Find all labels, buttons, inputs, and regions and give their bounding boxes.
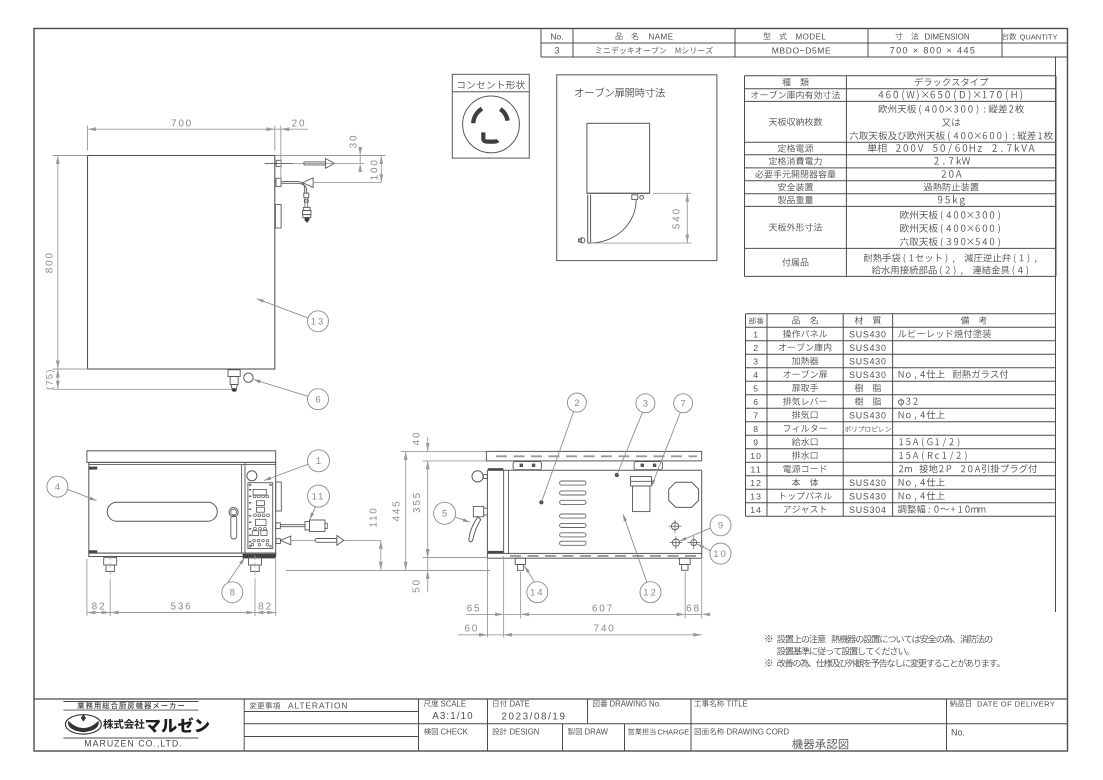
right side divider line: [1055, 57, 1057, 612]
svg-text:SUS304: SUS304: [849, 505, 887, 515]
side view dim 50: [427, 558, 429, 593]
balloon 11 leader: [310, 507, 316, 520]
svg-text:445: 445: [392, 499, 403, 521]
plan view caster foot: [228, 370, 240, 377]
specification table: [745, 75, 1057, 77]
balloon 9: [710, 515, 731, 536]
svg-text:MODEL: MODEL: [796, 32, 827, 41]
floor reference line: [286, 570, 490, 572]
alteration cell rows: [244, 711, 418, 713]
balloon 1: [308, 450, 330, 472]
side view base band: [487, 553, 701, 558]
front view corner clips: [89, 467, 98, 470]
balloon 12: [640, 582, 661, 603]
dim 100: [368, 155, 385, 157]
svg-text:2: 2: [753, 343, 759, 353]
plan view inlet flow arrow left: [303, 178, 314, 188]
svg-text:1: 1: [316, 456, 321, 467]
svg-text:4: 4: [753, 370, 759, 380]
svg-text:8: 8: [230, 588, 235, 599]
side view dim line 65 607 68: [466, 613, 702, 615]
dim 800 extension lines: [53, 155, 88, 157]
title block: [34, 698, 1068, 700]
inset dim 540: [686, 193, 688, 243]
side view exhaust lever knob: [472, 471, 483, 482]
side view louvers upper: [560, 481, 586, 485]
inset floor line and extension: [587, 192, 650, 194]
front view water port: [276, 539, 280, 544]
outlet circle - twist lock receptacle: [463, 96, 520, 153]
svg-text:1: 1: [753, 329, 759, 339]
door-open dimension inset box: [557, 75, 717, 261]
svg-text:30: 30: [348, 134, 359, 149]
plan view exhaust lever circle: [244, 373, 253, 382]
svg-text:82: 82: [258, 601, 273, 612]
svg-text:10: 10: [713, 549, 728, 560]
balloon 14 leader: [525, 566, 535, 582]
svg-text:700: 700: [171, 118, 193, 129]
maruzen bird mark: [65, 715, 101, 734]
svg-text:3: 3: [753, 356, 759, 366]
svg-text:No.: No.: [550, 31, 563, 41]
front view panel tick marks: [249, 489, 251, 491]
svg-text:DATE: DATE: [510, 699, 530, 708]
svg-text:6: 6: [753, 397, 759, 407]
svg-text:50: 50: [412, 578, 423, 593]
plan view filter plate on right edge: [275, 204, 281, 228]
side view rail clamps: [513, 462, 541, 470]
svg-text:SUS430: SUS430: [849, 370, 887, 380]
svg-text:9: 9: [718, 521, 723, 532]
front view filter dark band under panel: [243, 554, 276, 559]
side view louvers lower: [560, 514, 586, 518]
svg-text:355: 355: [412, 491, 423, 513]
svg-text:SUS430: SUS430: [849, 410, 887, 420]
svg-text:5: 5: [442, 509, 447, 520]
svg-text:4: 4: [55, 482, 60, 493]
installation notes: [765, 635, 772, 642]
svg-text:MBDO−D5ME: MBDO−D5ME: [772, 45, 831, 55]
svg-text:DRAW: DRAW: [585, 727, 609, 736]
balloon 10 leader: [697, 544, 711, 551]
svg-text:607: 607: [592, 603, 614, 614]
svg-text:DRAWING CORD: DRAWING CORD: [727, 727, 790, 736]
svg-text:65: 65: [467, 603, 482, 614]
balloon 5 leader: [455, 517, 470, 522]
balloon 13 leader: [257, 299, 309, 319]
title block labels: [250, 702, 257, 709]
side view dim 445: [405, 451, 407, 570]
svg-text:2: 2: [574, 398, 579, 409]
logo text kabushikigaisha maruzen: [103, 719, 113, 729]
svg-text:100: 100: [369, 158, 380, 180]
parts list table: [746, 313, 1056, 315]
svg-text:SUS430: SUS430: [849, 343, 887, 353]
svg-text:DATE OF DELIVERY: DATE OF DELIVERY: [977, 699, 1055, 708]
svg-text:8: 8: [753, 424, 759, 434]
side view exhaust duct: [631, 477, 652, 487]
svg-text:QUANTITY: QUANTITY: [1020, 32, 1058, 41]
front view base band: [89, 553, 276, 556]
dim (75): [57, 369, 59, 389]
plan view power cord: [281, 181, 305, 193]
svg-text:(75): (75): [44, 368, 55, 390]
front view outlet pill arrow right: [315, 539, 337, 543]
inset door swing arc: [591, 200, 636, 243]
inset oven body: [587, 123, 650, 193]
balloon 2 leader with dot: [540, 500, 544, 504]
svg-text:TITLE: TITLE: [727, 699, 748, 708]
front view body: [89, 462, 276, 553]
balloon 12 leader: [623, 514, 647, 582]
svg-text:SCALE: SCALE: [441, 699, 467, 708]
svg-text:14: 14: [750, 505, 762, 515]
svg-text:11: 11: [312, 492, 326, 503]
inset open door: [587, 195, 589, 244]
svg-text:12: 12: [643, 588, 658, 599]
side view dim 40: [427, 437, 429, 451]
side view body: [487, 469, 701, 471]
side view top panel: [486, 451, 701, 461]
svg-text:68: 68: [686, 603, 701, 614]
svg-text:7: 7: [680, 399, 685, 410]
svg-text:14: 14: [530, 588, 545, 599]
maruzen logo cell: [63, 701, 198, 703]
front view right hinge bracket: [276, 482, 282, 511]
svg-text:800: 800: [44, 251, 55, 273]
dim 20: [280, 126, 282, 185]
svg-text:12: 12: [750, 478, 762, 488]
side view door clips top and bottom: [488, 468, 504, 470]
top title strip table: [540, 29, 542, 58]
dim 700: [88, 128, 275, 130]
inset door hinge: [632, 195, 638, 200]
balloon 8: [222, 582, 243, 603]
plan view body outline: [88, 156, 275, 370]
dim 700 extension lines: [87, 126, 89, 151]
balloon 6: [308, 389, 329, 410]
side view dim 355: [427, 461, 429, 558]
svg-text:CHECK: CHECK: [441, 727, 469, 736]
svg-text:No.: No.: [951, 728, 965, 738]
front view dim 110: [380, 540, 382, 570]
svg-text:5: 5: [753, 383, 759, 393]
balloon 11: [308, 485, 330, 507]
front view cord port and plug: [276, 523, 281, 529]
balloon 9 leader: [680, 528, 711, 541]
svg-text:MARUZEN CO.,LTD.: MARUZEN CO.,LTD.: [84, 738, 182, 748]
svg-text:9: 9: [753, 437, 759, 447]
side view octagon filter intake: [669, 482, 699, 507]
dim 30: [275, 155, 368, 157]
svg-text:11: 11: [751, 464, 762, 474]
balloon 1 leader: [264, 464, 308, 480]
side view door handle bracket: [473, 506, 483, 516]
balloon 4 leader: [68, 489, 97, 500]
side view bottom dims extension lines: [487, 559, 489, 638]
svg-text:DESIGN: DESIGN: [510, 727, 540, 736]
front view bottom dims extension lines: [86, 559, 88, 616]
svg-text:82: 82: [92, 601, 107, 612]
svg-text:2023/08/19: 2023/08/19: [501, 712, 566, 723]
front view door window: [107, 502, 217, 521]
svg-text:DRAWING No.: DRAWING No.: [610, 699, 662, 708]
svg-text:13: 13: [750, 491, 762, 501]
svg-text:40: 40: [412, 431, 423, 446]
side view dim line 60 740: [458, 634, 702, 636]
outlet shape box: [452, 74, 529, 158]
svg-text:7: 7: [753, 410, 759, 420]
balloon 7 leader: [651, 413, 680, 487]
front view legs: [104, 558, 117, 565]
svg-text:ALTERATION: ALTERATION: [288, 701, 348, 711]
side view door handle blade: [469, 517, 481, 542]
svg-text:CHARGE: CHARGE: [658, 727, 690, 736]
front view dim line 82 536 82: [87, 612, 276, 614]
svg-text:700 × 800 × 445: 700 × 800 × 445: [890, 45, 977, 55]
svg-text:536: 536: [170, 601, 192, 612]
svg-text:20: 20: [292, 118, 307, 129]
svg-text:3: 3: [554, 45, 559, 55]
balloon 13: [308, 311, 329, 332]
balloon 3: [636, 394, 655, 413]
balloon 10: [710, 543, 731, 564]
balloon 14: [527, 582, 548, 603]
front view top panel band: [87, 451, 276, 463]
svg-text:SUS430: SUS430: [849, 491, 887, 501]
side view plumbing ports: [671, 523, 678, 530]
plan view outlet flow arrow right: [304, 162, 326, 165]
svg-text:13: 13: [311, 317, 326, 328]
balloon 7: [674, 394, 693, 413]
balloon 8 leader: [228, 558, 245, 583]
balloon 5: [434, 502, 456, 524]
plan view power inlet port: [276, 178, 281, 186]
svg-text:DIMENSION: DIMENSION: [924, 32, 970, 41]
parts table header: [749, 317, 756, 324]
svg-text:SUS430: SUS430: [849, 356, 887, 366]
balloon 2: [567, 393, 586, 412]
svg-text:3: 3: [643, 399, 648, 410]
dim 800: [57, 156, 59, 370]
svg-text:SUS430: SUS430: [849, 478, 887, 488]
svg-text:740: 740: [593, 624, 615, 635]
side view left dims extension lines: [401, 450, 487, 452]
front view inlet arrow left: [281, 536, 291, 545]
svg-text:110: 110: [368, 506, 379, 527]
svg-text:60: 60: [464, 624, 479, 635]
balloon 3 leader with dot: [615, 473, 619, 477]
svg-text:SUS430: SUS430: [849, 329, 887, 339]
front view panel displays and buttons: [253, 489, 266, 495]
svg-text:540: 540: [672, 207, 683, 229]
front view control panel bezel: [248, 483, 273, 549]
balloon 4: [47, 476, 68, 497]
front view control panel knob: [247, 471, 257, 481]
front view door divider and panel edge: [241, 465, 243, 553]
svg-text:A3:1/10: A3:1/10: [432, 711, 473, 722]
svg-text:NAME: NAME: [648, 32, 673, 41]
side view legs: [515, 558, 525, 564]
front view door handle: [229, 507, 238, 516]
inset door handle at bottom: [580, 238, 585, 243]
plan view water port upper: [276, 160, 281, 166]
svg-text:10: 10: [750, 451, 762, 461]
plan view plug: [304, 193, 309, 198]
svg-text:6: 6: [315, 395, 320, 406]
balloon 6 leader: [254, 380, 309, 397]
